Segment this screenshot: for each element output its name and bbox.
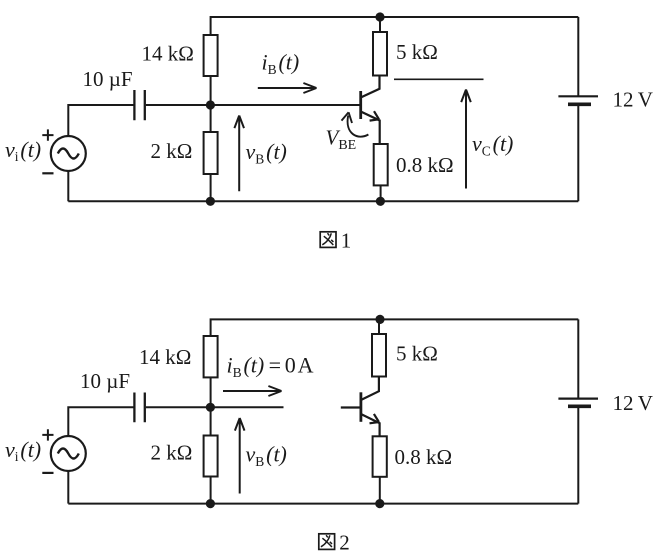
svg-text:10 µF: 10 µF	[80, 369, 130, 393]
resistor R4 0.8k fig1	[374, 144, 388, 185]
label figure caption 図1	[320, 232, 336, 248]
battery BT1' short plate fig2	[568, 404, 591, 408]
resistor R2' 2k fig2	[204, 436, 218, 477]
arrow: vB(t) fig2	[235, 418, 245, 494]
battery BT1' bottom lead fig2	[577, 406, 579, 503]
battery BT1' 12V fig2: top lead	[577, 319, 579, 398]
wire: R4 bottom lead fig1	[380, 185, 382, 201]
label V1' minus sign fig2	[42, 472, 53, 474]
svg-text:2: 2	[339, 531, 350, 555]
resistor R1 14k fig1	[204, 35, 218, 76]
svg-text:10 µF: 10 µF	[83, 67, 133, 91]
wire: top rail fig2	[211, 319, 579, 407]
node: bottom junction dot at R4 fig1	[376, 197, 385, 206]
battery BT1 12V fig1: top lead	[577, 17, 579, 96]
wire: capacitor to source fig2	[68, 407, 134, 436]
battery BT1 bottom lead fig1	[577, 104, 579, 201]
svg-text:iB (t): iB (t)	[262, 50, 300, 78]
battery BT1' long plate fig2	[558, 398, 598, 400]
wire: base rail fig2 (open ended)	[146, 406, 284, 408]
wire: R4' bottom lead fig2	[379, 477, 381, 504]
wire: vC reference overline fig1	[394, 78, 484, 80]
svg-text:iB (t) = 0 A: iB (t) = 0 A	[227, 353, 314, 381]
capacitor C1 10uF fig1	[134, 90, 144, 120]
arrow: iB direction fig1	[258, 83, 317, 93]
resistor R2 2k fig1	[204, 132, 218, 174]
svg-text:vi (t): vi (t)	[5, 437, 41, 464]
transistor Q1' emitter with arrow fig2	[361, 414, 380, 436]
wire: R3 top lead fig1	[379, 17, 381, 32]
node: top junction dot fig2	[375, 315, 384, 324]
transistor Q1' base lead fig2	[341, 406, 361, 408]
capacitor C1' 10uF fig2	[134, 393, 144, 423]
node: bottom junction dot at R2 fig1	[206, 197, 215, 206]
svg-text:12 V: 12 V	[613, 391, 653, 415]
source V1' sine symbol fig2	[58, 449, 79, 459]
svg-text:2 kΩ: 2 kΩ	[151, 441, 193, 465]
source V1 sine symbol fig1	[58, 149, 79, 159]
wire: source to bottom rail fig2	[67, 471, 69, 504]
node: top junction dot fig1	[375, 12, 384, 21]
svg-text:0.8 kΩ: 0.8 kΩ	[395, 445, 453, 469]
svg-text:5 kΩ: 5 kΩ	[396, 40, 438, 64]
arrow: iB direction fig2	[223, 386, 282, 396]
resistor R1' 14k fig2	[204, 336, 218, 377]
transistor Q1 base bar fig1	[359, 91, 362, 119]
battery BT1 long plate fig1	[558, 95, 598, 97]
transistor Q1 emitter with arrow fig1	[361, 112, 380, 145]
arrow: VBE curved arrow fig1	[348, 116, 369, 137]
svg-text:1: 1	[341, 229, 352, 253]
wire: bottom rail fig2	[68, 503, 578, 505]
source V1' vi(t) fig2	[51, 436, 86, 471]
wire: capacitor to source fig1	[68, 105, 134, 136]
node: base junction dot fig2	[206, 403, 215, 412]
svg-text:14 kΩ: 14 kΩ	[139, 345, 191, 369]
svg-text:12 V: 12 V	[613, 88, 653, 112]
svg-text:5 kΩ: 5 kΩ	[396, 342, 438, 366]
wire: source to bottom rail fig1	[67, 171, 69, 201]
battery BT1 short plate fig1	[568, 103, 591, 107]
svg-text:14 kΩ: 14 kΩ	[142, 41, 194, 65]
label V1 minus sign fig1	[42, 172, 53, 174]
label V1' plus sign fig2	[42, 429, 53, 440]
wire: bottom rail fig1	[68, 200, 578, 202]
arrow: vC(t) fig1	[461, 90, 471, 189]
node: bottom junction dot at R2' fig2	[206, 499, 215, 508]
svg-text:vC (t): vC (t)	[472, 131, 513, 159]
arrow: vB(t) fig1	[234, 116, 244, 192]
svg-text:2 kΩ: 2 kΩ	[151, 139, 193, 163]
label figure caption 図2	[319, 534, 335, 550]
svg-text:vB (t): vB (t)	[246, 442, 287, 470]
label V1 plus sign fig1	[42, 129, 53, 140]
svg-text:VBE: VBE	[326, 126, 357, 154]
wire: R3' top lead fig2	[378, 319, 380, 334]
wire: base rail fig1	[146, 104, 361, 106]
resistor R3' 5k fig2	[372, 334, 386, 377]
svg-text:vi (t): vi (t)	[5, 137, 41, 164]
resistor R4' 0.8k fig2	[373, 436, 387, 477]
node: base junction dot fig1	[206, 100, 215, 109]
wire: top rail fig1	[211, 17, 579, 105]
svg-text:0.8 kΩ: 0.8 kΩ	[396, 153, 454, 177]
node: bottom junction dot at R4' fig2	[375, 499, 384, 508]
source V1 vi(t) fig1	[51, 136, 86, 171]
svg-text:vB (t): vB (t)	[246, 139, 287, 167]
transistor Q1' collector fig2	[361, 377, 379, 400]
resistor R3 5k fig1	[373, 32, 387, 76]
wire: R2' leads fig2	[210, 407, 212, 503]
transistor Q1 collector fig1	[361, 76, 380, 98]
wire: R2 leads fig1	[210, 105, 212, 201]
transistor Q1' base bar fig2	[359, 392, 362, 422]
